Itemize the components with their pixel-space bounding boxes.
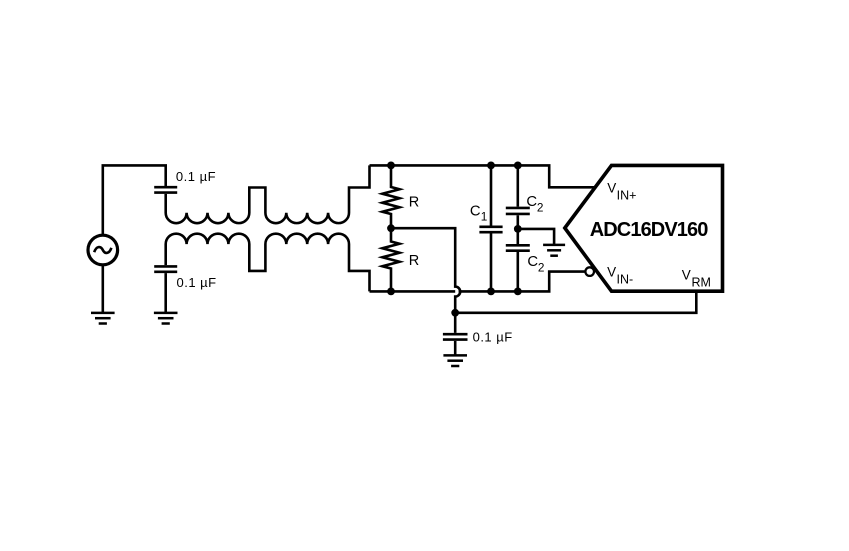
wire source top to C top-left <box>103 165 166 234</box>
node dot bottom rail C1 <box>487 288 495 296</box>
wire bottom cap to ground <box>454 341 457 356</box>
capacitor 0.1uF top-left <box>154 187 177 192</box>
svg-text:V: V <box>607 264 616 279</box>
AC source V1 <box>88 235 118 265</box>
node dot bottom junction <box>451 309 459 317</box>
svg-text:ADC16DV160: ADC16DV160 <box>590 219 709 241</box>
VIN- inversion bubble <box>585 267 594 276</box>
wire bottom rail left of hop <box>370 290 456 293</box>
svg-text:1: 1 <box>481 209 488 223</box>
wire C2 junction to ground <box>518 229 554 245</box>
wire junction to VRM <box>455 289 696 312</box>
node dot C2 junction <box>514 225 522 233</box>
svg-text:V: V <box>607 181 616 196</box>
capacitor C2 top <box>516 165 519 229</box>
wire source bottom lead <box>102 264 105 313</box>
capacitor 0.1uF bottom-left <box>154 266 177 271</box>
svg-text:C: C <box>470 204 481 220</box>
resistor R2 bottom <box>383 228 400 291</box>
wire top rail to VIN+ <box>370 165 597 187</box>
svg-text:0.1 µF: 0.1 µF <box>473 330 513 345</box>
wire bottom-left cap to ground <box>164 273 167 313</box>
svg-text:2: 2 <box>537 200 544 214</box>
svg-text:0.1 µF: 0.1 µF <box>176 169 216 184</box>
svg-text:IN+: IN+ <box>617 188 637 202</box>
ADC U1 body <box>565 165 723 291</box>
capacitor C1 <box>490 165 493 291</box>
node dot top rail R <box>387 162 395 170</box>
transformer T1 primary bottom winding + crossover bridge + secondary bottom winding <box>166 234 370 292</box>
transformer T1 primary top winding + crossover bridge + secondary top winding <box>166 165 370 223</box>
wire mid node to hop over bottom rail down to junction <box>391 228 460 333</box>
capacitor 0.1uF bottom <box>443 334 468 339</box>
svg-text:0.1 µF: 0.1 µF <box>177 275 217 290</box>
svg-text:2: 2 <box>538 261 545 275</box>
node dot top rail C2 <box>514 162 522 170</box>
svg-text:R: R <box>409 253 419 269</box>
capacitor C2 bottom <box>516 229 519 292</box>
ground (C2 mid) <box>543 245 565 256</box>
ground (bottom cap) <box>443 355 467 366</box>
ground (source) <box>91 313 115 324</box>
node dot bottom rail R <box>387 288 395 296</box>
svg-text:C: C <box>527 254 538 270</box>
svg-text:IN-: IN- <box>617 272 634 286</box>
ground (bottom-left cap) <box>154 313 178 324</box>
svg-text:V: V <box>682 268 691 283</box>
svg-text:C: C <box>526 194 537 210</box>
svg-text:R: R <box>409 195 419 211</box>
node dot top rail C1 <box>487 162 495 170</box>
wire bottom rail right of hop to VIN- bubble <box>459 272 585 292</box>
svg-text:RM: RM <box>692 275 711 289</box>
node dot bottom rail C2 <box>514 288 522 296</box>
resistor R1 top <box>383 165 400 228</box>
node dot mid resistors <box>387 224 395 232</box>
